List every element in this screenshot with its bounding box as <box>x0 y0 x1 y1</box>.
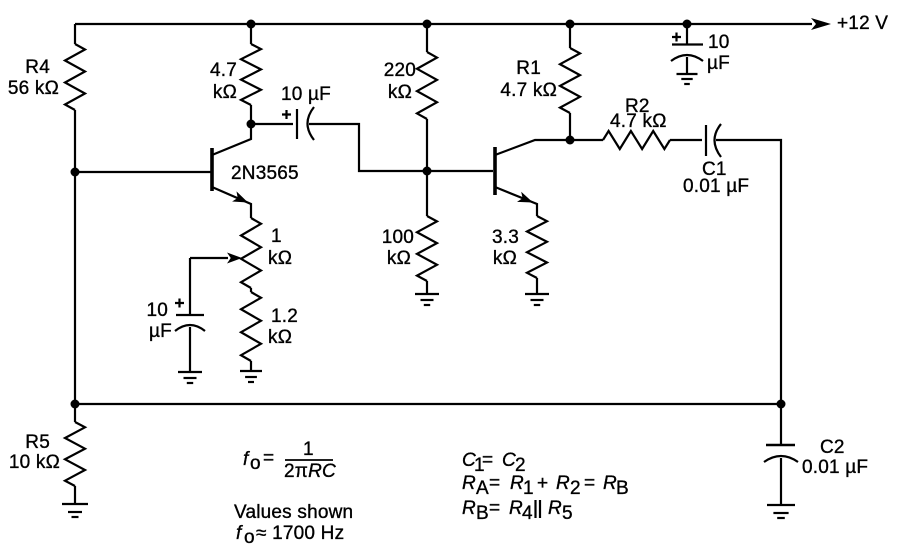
formula RA = R1 + R2 = RB <box>462 473 629 499</box>
svg-text:2πRC: 2πRC <box>284 461 336 482</box>
svg-text:kΩ: kΩ <box>388 82 412 103</box>
svg-text:220: 220 <box>384 60 416 81</box>
resistor R2 <box>603 131 670 149</box>
svg-text:=: = <box>489 473 500 494</box>
svg-text:R5: R5 <box>25 432 50 453</box>
svg-text:B: B <box>476 503 489 524</box>
formula C1 = C2 <box>462 450 526 476</box>
svg-text:1: 1 <box>271 226 282 247</box>
svg-text:o: o <box>244 527 255 545</box>
ground (emitter cap) <box>178 372 202 383</box>
svg-text:10 kΩ: 10 kΩ <box>9 452 60 473</box>
svg-text:=: = <box>482 450 493 471</box>
svg-text:R: R <box>548 498 562 519</box>
potentiometer 1 kOhm (Q1 emitter) <box>241 218 261 288</box>
ground (1.2k) <box>240 371 262 382</box>
svg-text:C2: C2 <box>820 437 845 458</box>
svg-text:0.01 µF: 0.01 µF <box>683 176 749 197</box>
svg-text:0.01 µF: 0.01 µF <box>802 457 868 478</box>
formula fo = 1/(2piRC) <box>243 439 336 482</box>
resistor 1.2 kOhm <box>250 288 252 292</box>
svg-text:C: C <box>502 450 516 471</box>
label fo approx 1700 Hz <box>236 523 344 545</box>
capacitor coupling 10uF (Q1 collector to divider) <box>251 107 427 171</box>
svg-text:R: R <box>509 498 523 519</box>
ground (100k) <box>415 294 439 305</box>
node Q1 collector junction <box>247 120 256 129</box>
capacitor bypass 10uF (supply) <box>671 24 703 74</box>
svg-text:R: R <box>603 473 617 494</box>
node 4.7k top rail junction <box>247 20 256 29</box>
svg-text:µF: µF <box>707 53 730 74</box>
svg-text:=: = <box>584 473 595 494</box>
svg-text:R1: R1 <box>516 58 541 79</box>
node divider junction 220k/100k <box>423 167 432 176</box>
arrowhead +12V supply <box>811 18 831 30</box>
svg-text:R: R <box>510 473 524 494</box>
node bypass cap rail junction <box>683 20 692 29</box>
formula RB = R4 || R5 <box>462 498 573 524</box>
transistor Q1 2N3565 <box>212 124 251 218</box>
svg-text:1.2: 1.2 <box>271 306 298 327</box>
wire bottom rail <box>75 403 781 405</box>
resistor R1 <box>560 48 580 113</box>
svg-text:f: f <box>236 523 243 544</box>
svg-text:1: 1 <box>303 439 314 460</box>
wiper arrow (1k pot) <box>190 253 242 264</box>
svg-text:10: 10 <box>708 32 730 53</box>
capacitor emitter bypass 10uF <box>175 315 205 372</box>
resistor R5 <box>74 404 76 422</box>
ground (3.3k) <box>525 294 549 305</box>
wire 100k leads <box>426 171 428 216</box>
resistor 220 kOhm <box>417 52 437 119</box>
svg-text:+: + <box>537 473 548 494</box>
svg-text:kΩ: kΩ <box>387 248 411 269</box>
svg-text:A: A <box>476 478 489 499</box>
svg-text:10 µF: 10 µF <box>281 84 331 105</box>
resistor 4.7 kOhm (Q1 collector) <box>241 44 261 105</box>
svg-text:f: f <box>243 449 250 470</box>
svg-text:2: 2 <box>570 478 581 499</box>
wire 4.7k collector resistor leads <box>250 24 252 44</box>
ground (bypass cap) <box>677 74 698 84</box>
svg-text:+12 V: +12 V <box>837 13 888 34</box>
svg-text:56 kΩ: 56 kΩ <box>8 78 59 99</box>
polarity + (emitter cap) <box>175 299 184 308</box>
polarity + (bypass cap) <box>672 33 681 42</box>
svg-text:kΩ: kΩ <box>268 248 292 269</box>
ground (R5) <box>62 504 88 517</box>
svg-text:1: 1 <box>523 478 534 499</box>
wire wiper to cap <box>189 258 191 315</box>
wire R2 leads <box>570 139 603 141</box>
wire Q1 base <box>75 171 211 173</box>
svg-text:4.7 kΩ: 4.7 kΩ <box>500 80 557 101</box>
svg-text:4: 4 <box>522 503 533 524</box>
node R4-base junction <box>71 168 80 177</box>
transistor Q2 <box>495 140 570 216</box>
svg-text:=: = <box>489 498 500 519</box>
node 220k top rail junction <box>423 20 432 29</box>
svg-text:4.7: 4.7 <box>210 60 237 81</box>
svg-text:kΩ: kΩ <box>268 327 292 348</box>
node Q2 collector junction <box>566 136 575 145</box>
svg-text:R: R <box>462 473 476 494</box>
svg-text:2N3565: 2N3565 <box>231 163 299 184</box>
svg-text:B: B <box>616 478 629 499</box>
svg-text:≈ 1700 Hz: ≈ 1700 Hz <box>256 523 344 544</box>
svg-text:3.3: 3.3 <box>492 227 519 248</box>
wire 220k leads <box>426 24 428 52</box>
svg-text:o: o <box>250 453 261 474</box>
resistor 100 kOhm <box>417 216 437 281</box>
wire left vertical bus (R4 branch) <box>74 24 76 44</box>
svg-text:R: R <box>462 498 476 519</box>
resistor R4 <box>65 44 85 110</box>
svg-text:µF: µF <box>149 321 172 342</box>
polarity + (coupling cap) <box>282 110 291 119</box>
svg-text:R: R <box>556 473 570 494</box>
ground (C2) <box>767 505 795 518</box>
svg-text:4.7 kΩ: 4.7 kΩ <box>610 111 667 132</box>
svg-text:Values shown: Values shown <box>234 502 353 523</box>
svg-text:5: 5 <box>562 503 573 524</box>
resistor 3.3 kOhm (Q2 emitter) <box>536 278 538 294</box>
node bottom rail left junction <box>71 400 80 409</box>
wire Q2 base <box>427 170 493 172</box>
svg-text:100: 100 <box>382 227 414 248</box>
svg-text:10: 10 <box>146 300 168 321</box>
svg-text:=: = <box>263 448 274 469</box>
wire R1 leads <box>569 24 571 48</box>
wire +12V top rail <box>75 23 812 25</box>
node R1 top rail junction <box>566 20 575 29</box>
node bottom rail right junction <box>777 400 786 409</box>
svg-text:R4: R4 <box>25 57 50 78</box>
svg-text:kΩ: kΩ <box>493 248 517 269</box>
svg-text:kΩ: kΩ <box>213 82 237 103</box>
capacitor C1 <box>706 124 781 404</box>
capacitor C2 <box>764 404 798 505</box>
